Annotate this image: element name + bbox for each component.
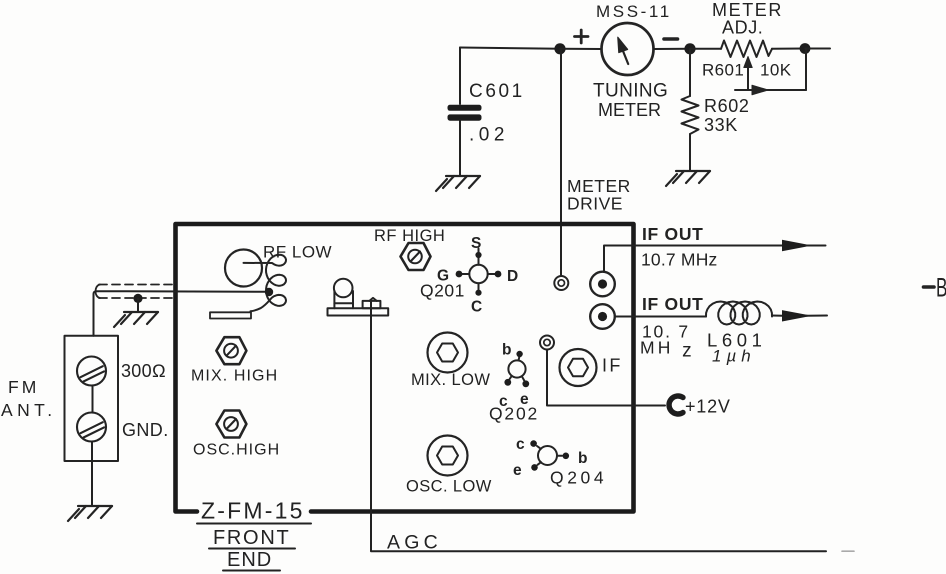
svg-text:b: b	[502, 342, 511, 359]
arrow IF OUT 1	[782, 240, 812, 251]
coil slug MIX LOW	[428, 333, 468, 373]
svg-text:MIX. LOW: MIX. LOW	[411, 371, 490, 389]
svg-text:S: S	[471, 235, 481, 252]
svg-text:DRIVE: DRIVE	[567, 194, 623, 214]
ground at terminal strip	[68, 506, 112, 521]
resistor R602 33K	[682, 49, 699, 171]
wire top bus from C601 to meter	[460, 48, 560, 49]
svg-text:ADJ.: ADJ.	[722, 18, 763, 38]
svg-text:IF OUT: IF OUT	[642, 224, 704, 244]
shield box Z-FM-15 front end	[176, 224, 634, 512]
label -B	[924, 285, 935, 289]
terminal strip FM ANT	[65, 336, 119, 461]
ground at R602	[666, 171, 710, 186]
inductor L601 1uh	[706, 302, 772, 325]
svg-text:1µh: 1µh	[712, 347, 756, 366]
arrow IF OUT 2	[782, 310, 812, 321]
wire meter drive from plus node down into shield box	[560, 49, 562, 276]
svg-text:C: C	[471, 299, 482, 316]
svg-text:FRONT: FRONT	[213, 527, 290, 549]
standoff AGC feedthrough	[328, 279, 389, 316]
wire AGC from standoff down and right	[371, 302, 826, 551]
wire node B to R601	[690, 48, 721, 50]
resistor R601 10K potentiometer METER ADJ	[721, 41, 772, 58]
svg-text:TUNING: TUNING	[593, 81, 668, 102]
ground at C601	[436, 176, 480, 191]
svg-text:MH z: MH z	[640, 338, 695, 362]
svg-text:300Ω: 300Ω	[121, 361, 166, 381]
svg-text:B: B	[936, 273, 946, 303]
wire R601 to right node	[772, 48, 805, 50]
wire coil to arrow	[772, 315, 783, 317]
transistor Q202	[508, 357, 525, 381]
capacitor C601 .02	[448, 48, 482, 177]
node junction antenna to coil	[265, 288, 273, 296]
trimmer nut OSC HIGH	[216, 411, 246, 438]
connector C +12V	[669, 396, 683, 414]
svg-text:b: b	[578, 450, 587, 467]
wire junction to meter left terminal	[560, 48, 602, 50]
connector 12V feedthrough	[540, 336, 554, 350]
terminal screw 300 ohm	[77, 357, 106, 386]
slug bar of RF LOW	[210, 312, 251, 318]
node junction at meter minus / R601 / R602	[684, 43, 695, 54]
svg-text:Q201: Q201	[420, 281, 465, 301]
coil RF LOW with slug	[225, 250, 286, 312]
connector meter drive feedthrough	[554, 276, 568, 290]
wiper arm of R601	[735, 49, 806, 95]
wire IF OUT 1	[604, 246, 783, 272]
transistor Q204	[537, 446, 562, 465]
antenna twin lead shield dashes	[96, 285, 177, 299]
svg-text:END: END	[227, 549, 272, 571]
node junction shield ground tap	[133, 294, 142, 303]
svg-text:Q204: Q204	[550, 468, 607, 488]
svg-text:33K: 33K	[704, 115, 738, 135]
wire AGC faint tail	[842, 550, 854, 552]
svg-text:C601: C601	[469, 81, 525, 102]
node junction right of R601	[800, 43, 811, 54]
svg-text:+12V: +12V	[685, 397, 731, 417]
meter M601 MSS-11 tuning meter	[602, 23, 654, 75]
coil slug IF	[560, 349, 597, 386]
svg-text:IF: IF	[602, 356, 623, 376]
ground at antenna shield	[114, 312, 158, 327]
svg-text:OSC.HIGH: OSC.HIGH	[193, 442, 280, 459]
svg-text:FM: FM	[8, 377, 39, 397]
svg-text:10.7 MHz: 10.7 MHz	[641, 250, 718, 270]
svg-text:10K: 10K	[760, 61, 792, 80]
svg-text:METER: METER	[598, 100, 661, 120]
svg-text:MIX. HIGH: MIX. HIGH	[191, 368, 278, 385]
svg-text:IF OUT: IF OUT	[642, 294, 704, 314]
svg-text:Q202: Q202	[489, 404, 539, 424]
svg-text:D: D	[507, 268, 518, 285]
connector IF OUT 1	[590, 272, 615, 297]
svg-text:OSC. LOW: OSC. LOW	[406, 478, 492, 496]
wire GND screw to ground	[91, 442, 93, 506]
coil slug OSC LOW	[428, 436, 468, 476]
wire between screws	[92, 386, 94, 413]
wire 12V feed to C connector	[547, 350, 665, 406]
svg-text:AGC: AGC	[387, 532, 442, 554]
trimmer nut MIX HIGH	[216, 337, 246, 364]
svg-text:e: e	[513, 462, 522, 479]
svg-text:RF LOW: RF LOW	[263, 243, 332, 262]
svg-text:ANT.: ANT.	[1, 400, 57, 420]
wire right node stub	[805, 48, 830, 50]
svg-text:GND.: GND.	[122, 420, 169, 440]
wire IF OUT 2 to coil	[615, 316, 706, 318]
svg-text:MSS-11: MSS-11	[596, 2, 672, 21]
trimmer nut RF HIGH	[401, 243, 431, 270]
transistor Q201 FET	[462, 249, 495, 291]
svg-text:R602: R602	[704, 96, 749, 116]
svg-text:.02: .02	[469, 125, 509, 146]
wire ground stem	[137, 298, 139, 312]
label plus sign	[575, 30, 589, 43]
svg-text:Z-FM-15: Z-FM-15	[201, 498, 305, 524]
connector IF OUT 2	[590, 304, 615, 329]
terminal screw GND	[77, 413, 106, 442]
node junction at meter plus terminal	[554, 43, 565, 54]
wire antenna lead to RF LOW coil	[94, 291, 266, 336]
wire meter right terminal to node B	[654, 48, 691, 50]
svg-text:R601: R601	[702, 61, 744, 80]
svg-text:c: c	[516, 436, 525, 453]
label minus sign	[664, 37, 678, 41]
